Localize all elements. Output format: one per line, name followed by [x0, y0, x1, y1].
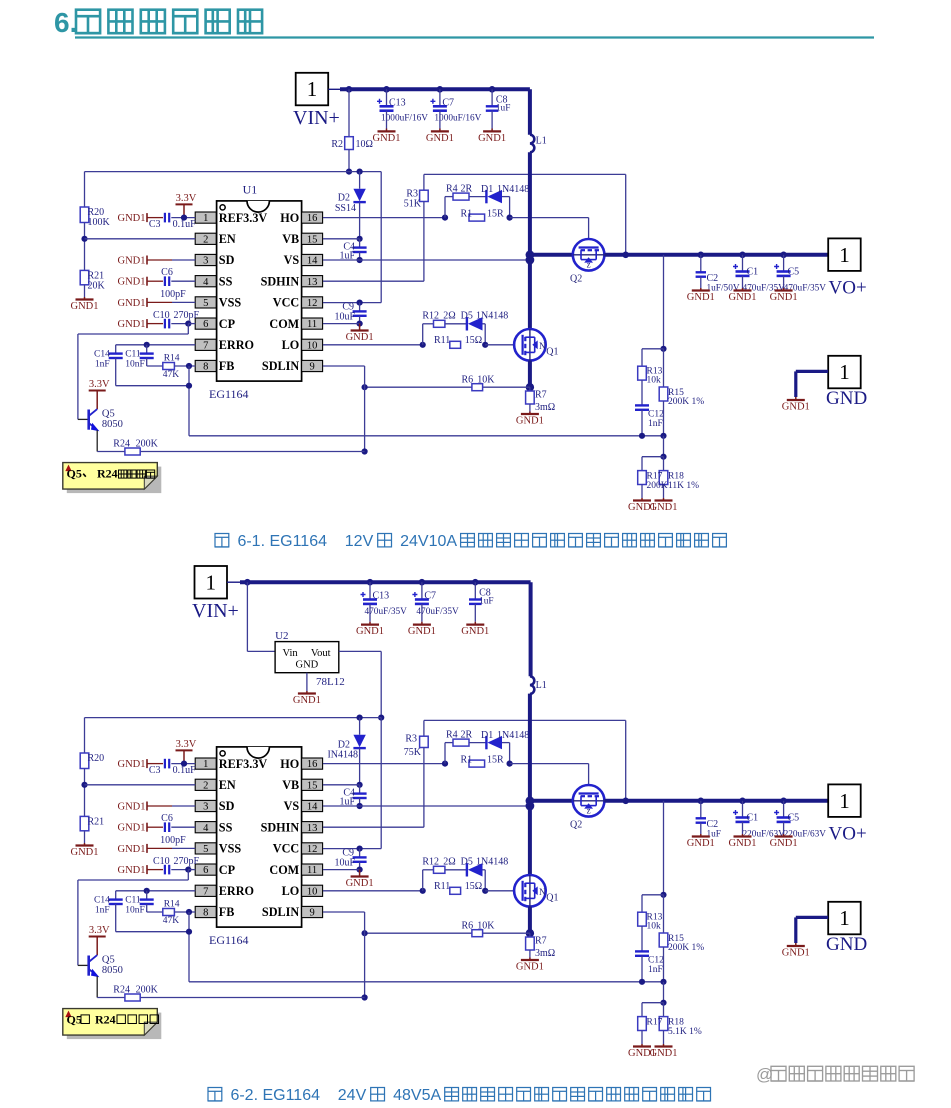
svg-text:GND1: GND1	[118, 802, 146, 813]
node FB-C14 junction	[186, 929, 192, 935]
svg-text:10: 10	[307, 340, 318, 351]
node boost sense tap	[622, 252, 629, 259]
pin 14 VS	[302, 800, 323, 811]
node C13 tap (circuit 2)	[367, 579, 374, 586]
node divider top	[660, 346, 666, 352]
svg-text:L1: L1	[536, 136, 547, 147]
svg-text:1nF: 1nF	[648, 965, 663, 975]
wire ERRO pin	[116, 890, 196, 892]
svg-text:R21: R21	[88, 817, 105, 828]
wire U2 Vout to VCC rail	[339, 650, 381, 652]
wire FB to feedback line	[188, 366, 190, 436]
svg-text:R7: R7	[535, 390, 547, 401]
wire SDLIN	[323, 911, 365, 913]
svg-text:1: 1	[203, 213, 208, 224]
svg-text:200K: 200K	[136, 985, 159, 996]
wire GND port	[796, 370, 828, 373]
pin 15 VB	[302, 233, 323, 244]
svg-text:R18: R18	[668, 1018, 684, 1028]
svg-text:15: 15	[307, 234, 318, 245]
svg-text:3.3V: 3.3V	[176, 193, 197, 204]
node VB	[357, 236, 363, 242]
svg-text:C7: C7	[442, 98, 454, 109]
node feedback R13	[639, 433, 645, 439]
node VCC at C9 top	[357, 846, 363, 852]
pin 6 CP	[195, 318, 216, 329]
wire LO pin	[323, 890, 423, 892]
svg-text:GND1: GND1	[118, 213, 146, 224]
node boost sense tap	[622, 798, 629, 805]
svg-text:GND1: GND1	[118, 865, 146, 876]
svg-text:GND1: GND1	[628, 502, 656, 513]
svg-text:15: 15	[307, 780, 318, 791]
node feedback R13	[639, 979, 645, 985]
svg-text:C13: C13	[389, 98, 406, 109]
node R24 right	[362, 994, 368, 1000]
svg-text:4: 4	[203, 823, 209, 834]
svg-text:SDLIN: SDLIN	[262, 359, 299, 373]
svg-text:1000uF/16V: 1000uF/16V	[434, 114, 481, 124]
pin 8 FB	[195, 906, 216, 917]
node C8 tap (circuit 2)	[472, 579, 479, 586]
wire output bus thick	[604, 799, 828, 803]
port GND	[828, 356, 861, 389]
node FB	[186, 909, 192, 915]
wire C3 to pin1	[171, 763, 195, 765]
wire FB to feedback line	[188, 912, 190, 982]
node R6 left	[362, 930, 368, 936]
resistor R4	[453, 739, 469, 746]
pin 1 REF3.3V	[195, 212, 216, 223]
resistor R20	[80, 753, 89, 769]
svg-text:C2: C2	[707, 273, 719, 284]
wire gate of Q2	[510, 763, 589, 765]
svg-text:ERRO: ERRO	[219, 884, 254, 898]
pin 3 SD	[195, 254, 216, 265]
node C1 tap	[739, 252, 746, 259]
capacitor C1	[742, 801, 744, 818]
port VIN+ (circuit 2)	[195, 566, 228, 599]
wire R20-R21 junction to EN	[84, 223, 86, 271]
wire HO pin	[323, 763, 445, 765]
capacitor C8 1uF	[491, 89, 493, 106]
svg-text:2Ω: 2Ω	[443, 856, 455, 867]
ground GND1 below C8 (circuit 2)	[474, 622, 476, 625]
wire HO pin	[323, 217, 445, 219]
resistor R3	[423, 174, 425, 190]
svg-text:C2: C2	[707, 819, 719, 830]
svg-text:GND1: GND1	[461, 626, 489, 637]
capacitor C3	[164, 213, 166, 223]
resistor R24 line	[97, 451, 364, 453]
wire VCC rail top-left	[84, 172, 86, 207]
svg-text:R11: R11	[434, 881, 450, 892]
svg-text:C10: C10	[153, 856, 170, 867]
svg-text:2: 2	[203, 780, 208, 791]
svg-text:1nF: 1nF	[648, 419, 663, 429]
svg-text:47K: 47K	[163, 916, 180, 926]
wire Q1 source thick	[528, 361, 532, 388]
svg-text:D5: D5	[461, 856, 473, 867]
ground GND1 below C2	[700, 834, 702, 837]
svg-text:1: 1	[206, 570, 217, 594]
ground GND1 below C1	[742, 834, 744, 837]
pin 9 SDLIN	[302, 360, 323, 371]
svg-text:12: 12	[307, 844, 318, 855]
svg-text:10uF: 10uF	[334, 858, 355, 869]
capacitor C9	[359, 849, 361, 858]
node pin1	[181, 761, 187, 767]
ground GND1 below C13	[386, 129, 388, 132]
svg-text:6-1. EG1164 12V: 6-1. EG1164 12V	[233, 533, 378, 550]
wire VCC supply rail horizontal	[85, 171, 382, 173]
svg-text:C11: C11	[125, 349, 141, 359]
svg-text:EN: EN	[219, 232, 236, 246]
pin 7 ERRO	[195, 339, 216, 350]
svg-text:GND1: GND1	[118, 319, 146, 330]
svg-text:D5: D5	[461, 310, 473, 321]
svg-text:GND1: GND1	[516, 962, 544, 973]
ground GND1 below R17	[641, 1031, 643, 1045]
svg-text:200K: 200K	[136, 439, 159, 450]
svg-text:14: 14	[307, 802, 318, 813]
svg-text:11K 1%: 11K 1%	[668, 481, 699, 491]
wire R3 bottom to SDHIN	[423, 202, 425, 282]
capacitor C6	[164, 822, 166, 832]
node EN junction	[81, 236, 87, 242]
wire C14 bottom to FB node	[116, 385, 189, 387]
ground GND1 below R18	[663, 1031, 665, 1045]
svg-text:REF3.3V: REF3.3V	[219, 757, 268, 771]
wire D1 to right riser	[502, 742, 510, 744]
wire R12 to D5	[445, 323, 467, 325]
svg-text:8: 8	[203, 908, 208, 919]
svg-text:10nF: 10nF	[125, 360, 145, 370]
resistor R18	[663, 457, 665, 471]
pin 7 ERRO	[195, 885, 216, 896]
pin 16 HO	[302, 758, 323, 769]
svg-text:R24: R24	[97, 467, 118, 481]
node VB	[357, 782, 363, 788]
svg-text:GND1: GND1	[782, 402, 810, 413]
node U2 tap	[244, 579, 251, 586]
svg-text:GND1: GND1	[782, 948, 810, 959]
wire output to divider	[663, 255, 665, 349]
ground GND1 below C1	[742, 288, 744, 291]
svg-text:1: 1	[839, 789, 850, 813]
svg-text:1: 1	[839, 360, 850, 384]
svg-text:20K: 20K	[88, 281, 106, 292]
svg-text:10Ω: 10Ω	[356, 139, 373, 150]
pin 4 SS	[195, 276, 216, 287]
svg-text:R12: R12	[422, 310, 439, 321]
svg-text:R14: R14	[164, 354, 180, 364]
capacitor C5	[783, 255, 785, 272]
wire R2 to VCC rail	[348, 150, 350, 172]
ground GND1 below R21	[84, 285, 86, 297]
wire R4 to D1	[469, 742, 486, 744]
svg-text:VIN+: VIN+	[293, 107, 340, 129]
wire Q5 emitter to R24	[96, 976, 98, 997]
node R6 left	[362, 384, 368, 390]
svg-text:FB: FB	[219, 905, 235, 919]
svg-text:R24: R24	[113, 985, 130, 996]
svg-text:SD: SD	[219, 253, 235, 267]
svg-text:1N4148: 1N4148	[476, 310, 508, 321]
node feedback R15	[660, 433, 666, 439]
pin 1 REF3.3V	[195, 758, 216, 769]
svg-text:200K 1%: 200K 1%	[668, 943, 704, 953]
port GND	[828, 902, 861, 935]
node lower divider	[660, 454, 666, 460]
svg-text:C1: C1	[747, 267, 759, 278]
capacitor C7 470uF/35V	[421, 582, 423, 599]
svg-text:3: 3	[203, 256, 208, 267]
svg-text:SDHIN: SDHIN	[261, 820, 300, 834]
svg-text:Q5: Q5	[102, 955, 115, 966]
node R11 left	[420, 888, 426, 894]
resistor R21	[80, 816, 89, 830]
svg-text:GND1: GND1	[118, 277, 146, 288]
svg-text:R24: R24	[95, 1013, 116, 1027]
node R1 right	[507, 215, 513, 221]
svg-text:R17: R17	[647, 1018, 663, 1028]
node COM at C9 bottom	[357, 867, 363, 873]
pin 16 HO	[302, 212, 323, 223]
svg-text:GND: GND	[826, 388, 867, 409]
svg-text:Vin: Vin	[283, 648, 299, 659]
wire R20-R21 junction to EN	[84, 769, 86, 817]
wire D2 cathode to VB	[359, 748, 361, 785]
svg-text:R6: R6	[462, 920, 474, 931]
node lower divider	[660, 1000, 666, 1006]
note sticky	[67, 1013, 162, 1040]
node C5 tap	[780, 252, 787, 259]
svg-text:10uF: 10uF	[334, 312, 355, 323]
svg-text:GND1: GND1	[356, 626, 384, 637]
pin 11 COM	[302, 864, 323, 875]
capacitor C10	[164, 865, 166, 875]
svg-text:VS: VS	[284, 253, 300, 267]
svg-text:Q1: Q1	[546, 893, 558, 904]
ground GND1 below C5	[783, 288, 785, 291]
title underline	[75, 36, 874, 38]
wire COM pin	[323, 323, 360, 325]
note sticky	[67, 467, 162, 494]
svg-text:24V10A: 24V10A	[396, 533, 461, 550]
svg-text:200K 1%: 200K 1%	[668, 397, 704, 407]
wire VCC rail drop to VCC pin	[380, 172, 382, 303]
capacitor C13 1000uF/16V	[386, 89, 388, 106]
svg-text:LO: LO	[282, 884, 300, 898]
resistor R11	[450, 887, 461, 894]
svg-text:15Ω: 15Ω	[465, 335, 482, 346]
svg-text:3.3V: 3.3V	[176, 739, 197, 750]
svg-text:7: 7	[203, 340, 208, 351]
svg-text:R14: R14	[164, 900, 180, 910]
svg-text:10K: 10K	[477, 374, 495, 385]
node C8 tap	[489, 86, 496, 93]
svg-text:47K: 47K	[163, 370, 180, 380]
resistor R6 and sense line	[365, 932, 530, 934]
resistor R12	[434, 320, 445, 327]
svg-text:Vout: Vout	[311, 648, 331, 659]
node VS at C4 bottom	[357, 257, 363, 263]
node VS at C4 bottom	[357, 803, 363, 809]
wire divider lower	[663, 436, 665, 457]
svg-text:GND1: GND1	[293, 695, 321, 706]
capacitor C2	[700, 255, 702, 272]
capacitor C6	[164, 276, 166, 286]
wire C3 to pin1	[171, 217, 195, 219]
ground GND1 below C7	[439, 129, 441, 132]
capacitor C10	[164, 319, 166, 329]
pin 4 SS	[195, 822, 216, 833]
caption figure 6-1	[215, 534, 229, 548]
svg-text:GND1: GND1	[118, 759, 146, 770]
svg-text:VO+: VO+	[829, 824, 867, 845]
node VS junction	[526, 256, 535, 265]
pin 13 SDHIN	[302, 276, 323, 287]
diode D2	[359, 718, 361, 735]
ground GND1 below C5	[783, 834, 785, 837]
node VCC at C9 top	[357, 300, 363, 306]
op-amp U1 EG1164 controller body (circuit 1)	[217, 201, 302, 381]
svg-text:10K: 10K	[477, 920, 495, 931]
wire riser R12 left	[422, 324, 424, 345]
node C13 tap	[383, 86, 390, 93]
svg-text:3.3V: 3.3V	[89, 925, 110, 936]
svg-text:51K: 51K	[404, 199, 422, 210]
pin 13 SDHIN	[302, 822, 323, 833]
svg-text:C6: C6	[161, 267, 173, 278]
wire riser R4 left	[444, 197, 446, 218]
wire EN	[85, 784, 196, 786]
svg-text:11: 11	[307, 319, 317, 330]
svg-text:1nF: 1nF	[95, 906, 110, 916]
svg-text:GND1: GND1	[687, 292, 715, 303]
svg-text:1nF: 1nF	[95, 360, 110, 370]
transistor Q1 main switch MOSFET	[514, 329, 546, 361]
wire switch node thick vertical	[528, 694, 532, 876]
wire EN	[85, 238, 196, 240]
svg-text:470uF/35V: 470uF/35V	[416, 607, 459, 617]
transistor Q5 8050 NPN	[87, 410, 90, 430]
capacitor C7 1000uF/16V	[439, 89, 441, 106]
svg-text:VCC: VCC	[273, 296, 299, 310]
svg-text:VS: VS	[284, 799, 300, 813]
diode D2	[359, 172, 361, 189]
diode D1	[485, 736, 487, 749]
svg-text:SS: SS	[219, 274, 233, 288]
svg-text:14: 14	[307, 256, 318, 267]
wire SDLIN	[323, 365, 365, 367]
svg-text:REF3.3V: REF3.3V	[219, 211, 268, 225]
node C5 tap	[780, 798, 787, 805]
transistor Q2 synchronous MOSFET	[530, 799, 573, 803]
svg-text:1000uF/16V: 1000uF/16V	[381, 114, 428, 124]
svg-text:100K: 100K	[88, 217, 111, 228]
svg-text:SDHIN: SDHIN	[261, 274, 300, 288]
pin 9 SDLIN	[302, 906, 323, 917]
wire feedback line to FB pin	[189, 435, 664, 437]
capacitor C14	[115, 345, 117, 354]
svg-text:Q2: Q2	[570, 820, 582, 831]
svg-text:1: 1	[839, 906, 850, 930]
svg-text:2: 2	[203, 234, 208, 245]
resistor R14	[163, 363, 175, 370]
node C2 tap	[698, 798, 705, 805]
svg-text:GND1: GND1	[71, 847, 99, 858]
wire output bus thick	[604, 253, 828, 257]
svg-text:270pF: 270pF	[174, 310, 200, 321]
wire to U2 Vin	[246, 582, 248, 651]
svg-text:16: 16	[307, 213, 318, 224]
ground GND1 below R21	[84, 831, 86, 843]
wire feedback line to FB pin	[189, 981, 664, 983]
svg-text:2R: 2R	[461, 730, 473, 741]
svg-text:z: z	[587, 260, 591, 270]
resistor R1	[469, 760, 485, 767]
svg-text:6-2. EG1164 24V: 6-2. EG1164 24V	[226, 1087, 371, 1104]
svg-text:U2: U2	[275, 630, 288, 642]
wire VB pin	[323, 784, 360, 786]
wire riser R12 left	[422, 870, 424, 891]
capacitor C3	[164, 759, 166, 769]
svg-text:VB: VB	[282, 232, 299, 246]
node R11 right	[482, 342, 488, 348]
svg-text:GND1: GND1	[687, 838, 715, 849]
ground GND1 below U2	[306, 673, 308, 691]
node R1 right	[507, 761, 513, 767]
svg-text:GND1: GND1	[118, 298, 146, 309]
resistor R14	[163, 909, 175, 916]
port VIN+ (circuit 1)	[296, 73, 329, 106]
port VO+	[828, 784, 861, 817]
capacitor C12	[641, 380, 643, 405]
node COM at C9 bottom	[357, 321, 363, 327]
transistor Q2 synchronous MOSFET	[530, 253, 573, 257]
svg-text:GND1: GND1	[71, 301, 99, 312]
node FB	[186, 363, 192, 369]
resistor R13	[641, 895, 643, 912]
svg-text:3: 3	[203, 802, 208, 813]
svg-text:15Ω: 15Ω	[465, 881, 482, 892]
svg-text:1: 1	[307, 77, 318, 101]
wire D1 to right riser	[502, 196, 510, 198]
resistor R13	[641, 349, 643, 366]
svg-text:VIN+: VIN+	[192, 600, 239, 622]
wire CP to Q5 base	[187, 870, 189, 880]
wire R3 bottom to SDHIN	[423, 748, 425, 828]
svg-text:CP: CP	[219, 317, 236, 331]
capacitor C11	[146, 345, 148, 354]
svg-text:SD: SD	[219, 799, 235, 813]
node divider top	[660, 892, 666, 898]
svg-text:10: 10	[307, 886, 318, 897]
capacitor C13 470uF/35V	[369, 582, 371, 599]
svg-text:VO+: VO+	[829, 278, 867, 299]
svg-text:COM: COM	[269, 317, 299, 331]
wire Q5 emitter to R24	[96, 430, 98, 451]
svg-text:C5: C5	[788, 813, 800, 824]
wire divider lower	[663, 982, 665, 1003]
svg-text:Q5: Q5	[67, 1013, 82, 1027]
pin 12 VCC	[302, 843, 323, 854]
svg-text:9: 9	[309, 362, 314, 373]
capacitor C5	[783, 801, 785, 818]
capacitor C14	[115, 891, 117, 900]
